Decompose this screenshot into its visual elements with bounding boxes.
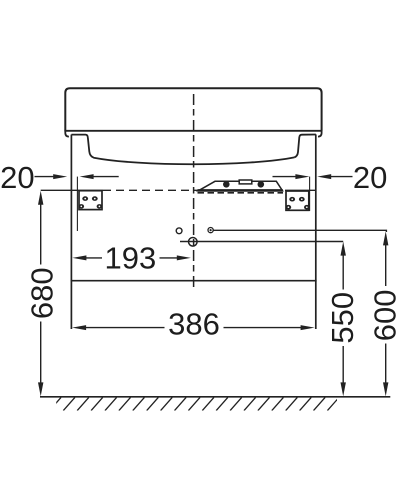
washbasin left lip xyxy=(65,131,69,137)
washbasin right lip xyxy=(318,131,322,137)
washbasin rim bottom edge xyxy=(64,130,322,132)
cabinet bottom xyxy=(71,280,317,282)
dimension 20 left line xyxy=(35,176,55,178)
dimension 20 left arrow left xyxy=(80,174,94,179)
door front right edge xyxy=(309,177,311,211)
dimension 386 arrow right xyxy=(301,325,315,330)
line from target dot to 600 xyxy=(213,230,386,232)
dimension 20 right arrow right xyxy=(295,174,309,179)
svg-text:20: 20 xyxy=(0,160,34,195)
dimension 600 arrow up xyxy=(383,231,388,245)
dimension 20 left tail xyxy=(93,176,119,178)
dimension 550 arrow down xyxy=(341,382,346,396)
right bracket xyxy=(286,191,310,210)
door front left edge xyxy=(76,177,78,231)
centerline xyxy=(193,94,195,289)
washbasin rim xyxy=(65,88,321,131)
dimension 193 arrow left xyxy=(72,255,86,260)
line from crosshair to 550 xyxy=(180,241,343,243)
mounting line solid left xyxy=(41,189,103,191)
dimension 386 line right xyxy=(224,327,302,329)
svg-text:193: 193 xyxy=(105,241,157,276)
svg-text:20: 20 xyxy=(353,160,387,195)
washbasin right leg xyxy=(294,135,316,158)
drain rail xyxy=(198,180,284,193)
ground line xyxy=(40,396,390,398)
dimension 193 line left xyxy=(86,257,102,259)
dimension 600 line lower xyxy=(385,344,387,385)
dimension 550 line upper xyxy=(342,254,344,289)
mounting line solid right xyxy=(286,189,316,191)
cabinet right wall xyxy=(315,134,317,329)
dimension 680 arrow up xyxy=(38,191,43,205)
dimension 20 right line xyxy=(331,176,353,178)
dimension 550 arrow up xyxy=(341,242,346,256)
dimension 386 arrow left xyxy=(72,325,86,330)
dimension 680 line lower xyxy=(40,322,42,385)
left bracket xyxy=(79,191,103,210)
svg-text:680: 680 xyxy=(24,267,59,319)
dimension 600 line upper xyxy=(385,244,387,286)
reference target dot xyxy=(208,228,213,233)
washbasin left leg and bowl bottom xyxy=(71,135,294,165)
ground hatching xyxy=(49,397,339,410)
dimension 20 right tail xyxy=(273,176,297,178)
dimension 600 arrow down xyxy=(383,382,388,396)
svg-text:550: 550 xyxy=(325,292,360,344)
crosshair reference xyxy=(189,238,198,247)
svg-text:386: 386 xyxy=(168,307,220,342)
dimension 193 arrow right xyxy=(177,255,191,260)
dimension 680 arrow down xyxy=(38,382,43,396)
mounting line dashed middle xyxy=(103,189,286,191)
svg-text:600: 600 xyxy=(367,290,400,342)
dimension 386 line left xyxy=(86,327,165,329)
reference circle xyxy=(176,228,182,234)
dimension 20 right arrow left xyxy=(317,174,331,179)
dimension 680 line upper xyxy=(40,204,42,265)
dimension 193 line right xyxy=(160,257,178,259)
cabinet left wall xyxy=(70,135,72,330)
dimension 20 left arrow right xyxy=(53,174,67,179)
dimension 550 line lower xyxy=(342,346,344,384)
